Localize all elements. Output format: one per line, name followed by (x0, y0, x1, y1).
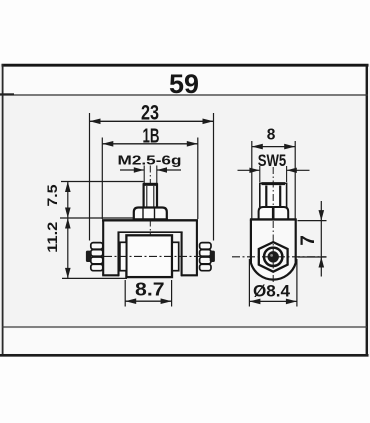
vertical axis centerline front view (149, 166, 151, 278)
dimension diameter 8.4 line with arrows (249, 299, 297, 305)
body top line (102, 219, 198, 221)
axle end nub left (86, 251, 91, 262)
dimension 8 line with arrows (252, 144, 295, 150)
hex stem side view (260, 183, 287, 207)
slot top line (118, 231, 183, 233)
axle nut left (91, 243, 103, 271)
hex nut on axle (side view) (259, 242, 288, 272)
dimension 18 line with arrows (102, 141, 198, 147)
dimension 23 text (141, 102, 159, 125)
dimension 18 extension line right (197, 138, 199, 220)
body left edge (102, 220, 104, 276)
SW5 extension line left (259, 166, 261, 182)
axle end (filled) (268, 251, 279, 262)
svg-text:11.2: 11.2 (44, 221, 60, 252)
dimension 8 text (267, 127, 276, 144)
dimension 8.7 line with arrows (125, 298, 171, 304)
thread dimension arrows (120, 167, 181, 172)
dimension 7 top extension line (298, 220, 327, 222)
SW5 extension line right (286, 166, 288, 182)
dimension 8.7 extension line right (171, 280, 173, 307)
label SW5 (258, 152, 287, 170)
vertical axis centerline side view (272, 167, 274, 284)
dimension 8.7 extension line left (124, 280, 126, 307)
collar side view (259, 207, 289, 219)
axle end nub right (210, 251, 215, 262)
body right edge (196, 220, 198, 276)
dimension 8 extension line left (251, 141, 253, 220)
svg-text:59: 59 (169, 69, 199, 99)
dimension 18 extension line left (101, 138, 103, 220)
body bottom right segment (181, 274, 198, 276)
svg-text:7.5: 7.5 (44, 184, 60, 206)
stem top extension line (7.5) (61, 181, 144, 183)
svg-text:7: 7 (298, 235, 319, 246)
thread extension line left (143, 166, 145, 185)
dimension 7 bottom extension segment (298, 256, 327, 258)
dimension 23 extension line left (89, 113, 91, 241)
svg-text:Ø8.4: Ø8.4 (253, 283, 291, 301)
svg-text:M2.5-6g: M2.5-6g (118, 153, 182, 168)
bottom border line (0, 354, 369, 357)
dimension text 8.7 (135, 280, 165, 300)
side body with rounded roller bottom (250, 219, 297, 279)
lower thin rule (2, 326, 367, 328)
roller (126, 235, 172, 277)
axle nut right (200, 243, 211, 271)
header number 59 (169, 69, 199, 99)
left border line (2, 64, 4, 356)
dimension diameter 8.4 extension line right (296, 259, 298, 307)
dimension 18 text (143, 126, 160, 148)
dimension 23 extension line right (213, 113, 215, 241)
hex flange under stem (133, 208, 168, 220)
horizontal axis centerline side view (232, 256, 327, 258)
dimension text diameter 8.4 (253, 283, 291, 301)
dimension 23 line with arrows (90, 119, 214, 125)
threaded stem (143, 184, 158, 208)
right border line (366, 64, 368, 356)
dimension diameter 8.4 extension line left (248, 259, 250, 307)
SW5 dimension arrows (238, 168, 310, 173)
svg-text:8.7: 8.7 (135, 280, 165, 300)
middle extension line (7.5/11.2) (60, 217, 134, 219)
roller bottom extension line (11.2) (62, 277, 127, 279)
body bottom left segment (102, 274, 119, 276)
bearing washer left (120, 242, 127, 270)
dimension text 7.5 (44, 184, 60, 206)
axle centerline horizontal (104, 255, 214, 257)
svg-text:8: 8 (267, 127, 276, 144)
dimension 7 line with outside arrows (319, 201, 325, 277)
axle washer ring (264, 248, 282, 266)
dimension 8 extension line right (294, 141, 296, 220)
slot inner edge right (181, 232, 183, 276)
top border line (2, 64, 369, 67)
header underline (0, 93, 368, 96)
svg-text:SW5: SW5 (258, 152, 287, 170)
bearing washer right (172, 242, 179, 270)
thread label M2.5-6g (118, 153, 182, 168)
slot inner edge left (117, 232, 119, 276)
left vertical dimension line (65, 182, 71, 279)
dimension text 11.2 (44, 221, 60, 252)
thread extension line right (156, 166, 158, 185)
dimension text 7 (298, 235, 319, 246)
